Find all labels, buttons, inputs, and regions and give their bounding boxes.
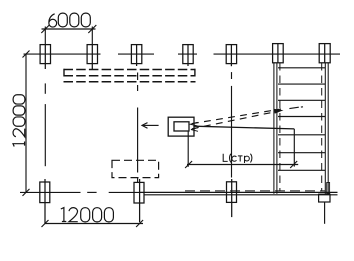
sleeper 6 bbox=[278, 152, 325, 154]
crane track column left bbox=[273, 44, 284, 63]
top axis line segment 2 bbox=[118, 53, 154, 55]
left dimension line 12000 bbox=[25, 54, 27, 192]
crane body inner bbox=[174, 122, 189, 131]
column 2 top bbox=[87, 45, 97, 69]
wall top line bbox=[139, 191, 338, 193]
boom direction arrow filled bbox=[274, 109, 284, 114]
dimension text 12000 bottom bbox=[61, 208, 114, 222]
panel stack row 1 bbox=[64, 69, 196, 71]
column 3 bottom bbox=[227, 179, 237, 217]
top axis line segment 1 bbox=[24, 53, 101, 55]
panel stack right bracket bbox=[194, 69, 196, 77]
boom dashed line lower bbox=[192, 112, 276, 129]
crane rail right inner bbox=[324, 63, 326, 194]
bottom tick left bbox=[42, 220, 49, 227]
dimension text 6000 bbox=[49, 13, 90, 27]
boom dash beyond arrow bbox=[289, 107, 298, 108]
axis C dash segments bbox=[137, 73, 139, 81]
extension line A bbox=[44, 27, 46, 45]
crane track column right bbox=[319, 44, 330, 63]
crane body outer bbox=[168, 117, 194, 136]
sleeper 7 bbox=[278, 169, 325, 171]
L dim extension left bbox=[187, 131, 189, 167]
storage area dashed rect bbox=[112, 160, 159, 177]
crane rail right outer bbox=[327, 63, 329, 194]
sleeper 3 bbox=[278, 99, 325, 101]
tick right 6000 bbox=[88, 25, 96, 33]
rail axis right dashed bbox=[321, 63, 323, 191]
boom start arrowhead lower bbox=[191, 128, 198, 132]
boom start arrowhead upper bbox=[191, 122, 198, 126]
crane rail left inner bbox=[276, 63, 278, 194]
axis E dash segments bbox=[231, 72, 233, 79]
L tick left bbox=[185, 161, 192, 168]
L tick right bbox=[290, 161, 297, 168]
end stop axis extension bbox=[324, 202, 326, 224]
column 2 bottom bbox=[134, 179, 144, 222]
tick left 6000 bbox=[41, 25, 49, 33]
bottom tick right bbox=[136, 220, 143, 227]
top axis line segment 4 bbox=[214, 53, 341, 55]
sleeper 2 bbox=[278, 83, 325, 85]
dimension text 12000 vertical bbox=[13, 95, 25, 147]
tick bottom left dim bbox=[23, 189, 30, 196]
column 4 top bbox=[183, 45, 193, 66]
top axis line segment 3 bbox=[178, 53, 197, 55]
bottom axis dash bbox=[87, 191, 96, 193]
column 1 bottom bbox=[40, 179, 50, 224]
crane rail left outer bbox=[273, 63, 275, 194]
bottom axis solid mid bbox=[109, 191, 139, 193]
boom dashed line upper bbox=[192, 109, 281, 124]
bottom axis overlay dashes bbox=[185, 190, 325, 192]
extension line B bbox=[91, 27, 93, 45]
column 5 top bbox=[226, 45, 236, 67]
sleeper 4 bbox=[278, 116, 325, 118]
movement arrow head bbox=[142, 123, 148, 129]
sleeper 5 bbox=[278, 134, 325, 136]
track end stop bbox=[319, 194, 330, 202]
wall bottom line bbox=[144, 194, 338, 196]
track end stop notch bbox=[327, 183, 330, 194]
bottom axis line solid left bbox=[20, 191, 81, 193]
panel stack left bracket bbox=[63, 69, 65, 77]
tick top left dim bbox=[23, 51, 30, 58]
dimension line 6000 bbox=[42, 28, 96, 30]
L dim label bbox=[223, 154, 252, 163]
bottom dimension line 12000 bbox=[45, 223, 144, 225]
sleeper 1 bbox=[278, 67, 325, 69]
boom solid radius line bbox=[194, 126, 294, 129]
movement arrow line bbox=[143, 124, 158, 126]
panel stack row 3 bbox=[64, 81, 196, 83]
column 3 top bbox=[131, 45, 141, 66]
panel stack row 2 bbox=[64, 75, 196, 77]
rail axis left dashed bbox=[279, 63, 281, 191]
column 1 top bbox=[40, 45, 50, 69]
L dimension line bbox=[187, 164, 298, 166]
axis A dash segments bbox=[44, 83, 46, 93]
radius vertical extension bbox=[293, 129, 295, 167]
